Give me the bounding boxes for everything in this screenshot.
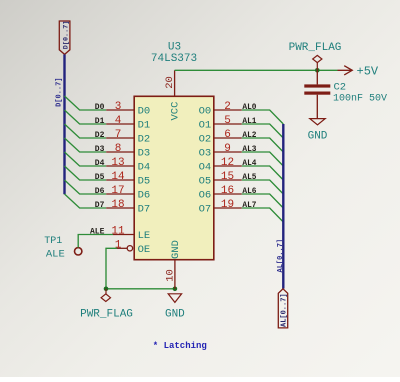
power flag PWR_FLAG (top) [289, 42, 342, 70]
svg-text:7: 7 [115, 129, 122, 141]
pin 17 (D6) [106, 185, 150, 201]
svg-text:16: 16 [221, 185, 234, 197]
pin 18 (D7) [106, 199, 150, 215]
wire + bus entry AL4 [242, 166, 283, 180]
pin 5 (O1) [199, 115, 242, 131]
svg-text:6: 6 [224, 129, 231, 141]
svg-text:2: 2 [224, 101, 231, 113]
bus entry + wire D6 [65, 180, 107, 194]
svg-text:AL2: AL2 [242, 132, 256, 140]
svg-text:D0: D0 [138, 106, 151, 118]
capacitor C2 100nF 50V [304, 70, 387, 118]
svg-text:D6: D6 [95, 187, 105, 196]
svg-text:U3: U3 [168, 42, 181, 54]
op-amp/IC U3 74LS373 body [134, 96, 214, 259]
pin 12 (O4) [199, 157, 242, 173]
svg-text:AL3: AL3 [242, 146, 256, 154]
svg-text:14: 14 [111, 171, 125, 183]
ground GND (under C2) [308, 119, 328, 143]
svg-text:15: 15 [221, 171, 234, 183]
svg-text:O4: O4 [199, 162, 212, 174]
junction at PWR_FLAG (bottom) [104, 287, 109, 292]
power flag PWR_FLAG (bottom) [80, 289, 133, 321]
svg-text:O0: O0 [199, 106, 212, 118]
svg-text:100nF 50V: 100nF 50V [333, 94, 387, 105]
svg-text:18: 18 [111, 199, 124, 211]
svg-text:D2: D2 [138, 134, 151, 146]
junction at GND pin 10 [173, 287, 178, 292]
wire + bus entry AL1 [242, 124, 283, 138]
svg-text:ALE: ALE [90, 227, 105, 236]
bus D[0..7] (left vertical) [63, 55, 65, 195]
pin 19 (O7) [199, 199, 242, 215]
svg-text:D7: D7 [138, 204, 151, 216]
svg-text:O3: O3 [199, 148, 212, 160]
svg-text:19: 19 [221, 199, 234, 211]
bus entry + wire D1 [65, 110, 107, 124]
bus entry + wire D0 [65, 96, 107, 110]
svg-text:74LS373: 74LS373 [151, 53, 197, 65]
bus entry + wire D7 [65, 194, 107, 208]
pin 9 (O3) [199, 143, 242, 159]
svg-text:VCC: VCC [169, 102, 181, 121]
svg-text:AL7: AL7 [242, 202, 256, 210]
pin 2 (O0) [199, 101, 242, 117]
pin 1 (OE, inverted) [115, 240, 151, 256]
wire + bus entry AL5 [242, 180, 283, 194]
svg-text:3: 3 [115, 101, 122, 113]
svg-text:O1: O1 [199, 120, 212, 132]
svg-text:D5: D5 [95, 173, 105, 182]
power symbol +5V [338, 64, 379, 78]
svg-text:D1: D1 [95, 117, 105, 126]
svg-text:D1: D1 [138, 120, 151, 132]
svg-text:AL[0..7]: AL[0..7] [281, 293, 289, 327]
svg-text:12: 12 [221, 157, 234, 169]
svg-text:AL[0..7]: AL[0..7] [277, 239, 285, 273]
svg-text:TP1: TP1 [44, 236, 62, 247]
svg-text:D4: D4 [138, 162, 151, 174]
svg-text:O6: O6 [199, 190, 212, 202]
pin 20 (VCC) [164, 70, 176, 96]
pin 16 (O6) [199, 185, 242, 201]
svg-text:10: 10 [164, 269, 176, 282]
svg-text:8: 8 [115, 143, 122, 155]
svg-text:GND: GND [170, 240, 182, 259]
svg-text:O2: O2 [199, 134, 212, 146]
wire OE to GND net [106, 248, 175, 288]
svg-text:GND: GND [165, 308, 185, 320]
svg-text:D3: D3 [138, 148, 151, 160]
wire + bus entry AL0 [242, 110, 283, 124]
junction at C2/+5V node [315, 68, 320, 73]
svg-text:9: 9 [224, 143, 231, 155]
svg-text:13: 13 [111, 157, 124, 169]
svg-text:5: 5 [224, 115, 231, 127]
pin 6 (O2) [199, 129, 242, 145]
wire + bus entry AL2 [242, 138, 283, 152]
bus entry + wire D4 [65, 152, 107, 166]
svg-text:* Latching: * Latching [153, 341, 207, 351]
hierarchical label D[0..7] [59, 21, 70, 55]
hierarchical label AL[0..7] [278, 289, 288, 328]
svg-text:D7: D7 [95, 201, 105, 210]
bus entry + wire D2 [65, 124, 107, 138]
bus entry + wire D5 [65, 166, 107, 180]
svg-text:D6: D6 [138, 190, 151, 202]
svg-text:D5: D5 [138, 176, 151, 188]
pin 15 (O5) [199, 171, 242, 187]
svg-text:AL1: AL1 [242, 118, 256, 126]
svg-text:C2: C2 [334, 81, 347, 93]
test point TP1 [44, 236, 82, 260]
svg-text:ALE: ALE [46, 248, 65, 260]
svg-text:D3: D3 [95, 145, 105, 154]
pin 13 (D4) [106, 157, 150, 173]
svg-text:D0: D0 [95, 103, 105, 112]
pin 3 (D0) [106, 101, 150, 117]
pin 10 (GND) [164, 260, 176, 289]
svg-text:LE: LE [138, 230, 151, 242]
pin 11 (LE) [111, 226, 150, 243]
svg-text:PWR_FLAG: PWR_FLAG [80, 308, 133, 320]
wire TP1 to LE [78, 235, 113, 248]
svg-text:AL5: AL5 [242, 174, 256, 182]
wire + bus entry AL6 [242, 194, 283, 208]
svg-text:O5: O5 [199, 176, 212, 188]
svg-text:11: 11 [111, 226, 125, 238]
svg-text:OE: OE [138, 244, 151, 256]
wire + bus entry AL7 [242, 208, 283, 222]
svg-text:1: 1 [115, 240, 122, 252]
svg-text:+5V: +5V [357, 64, 379, 78]
bus AL[0..7] (right vertical) [282, 124, 284, 289]
pin 7 (D2) [106, 129, 150, 145]
svg-text:AL0: AL0 [242, 104, 256, 112]
ground GND (bottom) [165, 294, 185, 321]
pin 4 (D1) [106, 115, 150, 131]
svg-text:4: 4 [115, 115, 122, 127]
pin 8 (D3) [106, 143, 150, 159]
svg-text:D[0..7]: D[0..7] [55, 77, 63, 106]
svg-text:D2: D2 [95, 131, 105, 140]
svg-text:O7: O7 [199, 204, 212, 216]
svg-text:GND: GND [308, 130, 328, 142]
svg-text:D4: D4 [95, 159, 105, 168]
wire + bus entry AL3 [242, 152, 283, 166]
svg-text:AL6: AL6 [242, 188, 256, 196]
pin 14 (D5) [106, 171, 150, 187]
svg-text:17: 17 [111, 185, 124, 197]
svg-text:AL4: AL4 [242, 160, 256, 168]
bus entry + wire D3 [65, 138, 107, 152]
wire VCC to +5V [175, 69, 338, 71]
svg-text:20: 20 [164, 76, 176, 89]
svg-text:D[0..7]: D[0..7] [62, 21, 70, 50]
svg-text:PWR_FLAG: PWR_FLAG [289, 42, 342, 54]
